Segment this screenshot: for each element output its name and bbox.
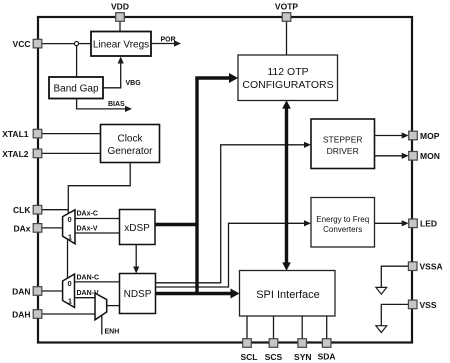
svg-text:SPI Interface: SPI Interface [256,289,320,301]
wire SPI to SCS [273,316,275,339]
svg-text:LED: LED [420,219,437,229]
svg-text:DAx: DAx [13,223,30,233]
svg-text:VDD: VDD [111,2,129,12]
svg-text:CLK: CLK [13,205,31,215]
svg-text:STEPPER: STEPPER [323,135,363,145]
block U2 Band Gap [49,77,103,99]
net DAx-C wire to xDSP [75,211,120,219]
pin CLK [13,205,42,215]
svg-text:0: 0 [68,215,72,224]
pin MOP [409,131,440,141]
svg-text:VCC: VCC [13,39,31,49]
svg-text:MON: MON [420,151,440,161]
pin VSS [408,300,436,310]
chip outline border [38,17,412,343]
svg-text:VSSA: VSSA [420,262,443,272]
svg-text:Linear Vregs: Linear Vregs [93,40,149,51]
pin SYN [294,339,311,362]
mux M3 ENH selector [95,293,107,320]
wire VCC to junction [41,43,74,45]
svg-text:SCS: SCS [265,352,283,362]
svg-text:Clock: Clock [117,134,143,145]
wire XTAL1 to Clock Generator [41,133,101,135]
pin XTAL1 [2,129,42,139]
wire Energy to Freq to LED [375,220,409,226]
wire VDD to Linear Vregs [119,20,121,32]
svg-text:MOP: MOP [420,131,440,141]
block U3 Clock Generator [101,125,160,163]
net BIAS output arrow [77,99,132,113]
wire Stepper Driver to MON [375,153,409,159]
wire junction to Linear Vregs [79,43,91,45]
svg-text:Band Gap: Band Gap [53,84,98,95]
svg-text:DAH: DAH [12,309,30,319]
wire SPI to SCL [246,316,248,339]
wire DAH to mux M3 [41,313,95,315]
wire mux select M1 to M2 [67,240,69,278]
svg-text:POR: POR [161,37,176,44]
svg-text:Energy to Freq: Energy to Freq [316,215,369,224]
mux M2 DAN selector [63,274,75,308]
pin VSSA [408,262,442,272]
svg-text:SCL: SCL [241,352,258,362]
svg-text:112 OTP: 112 OTP [267,66,308,78]
svg-text:ENH: ENH [105,329,120,336]
svg-text:0: 0 [68,279,72,288]
block U4 xDSP [120,210,156,245]
svg-text:VOTP: VOTP [275,2,298,12]
svg-text:xDSP: xDSP [124,223,150,234]
svg-text:VSS: VSS [420,300,437,310]
block U1 Linear Vregs [91,32,151,57]
pin VOTP [275,2,298,22]
pin VDD [111,2,129,22]
svg-text:CONFIGURATORS: CONFIGURATORS [242,79,333,91]
pin MON [409,151,440,161]
block U9 SPI Interface [240,271,336,317]
svg-text:1: 1 [68,296,72,305]
wire VSS to ground [381,304,408,325]
thick bus arrow into OTP [195,73,238,83]
svg-text:NDSP: NDSP [124,289,152,300]
block U6 112 OTP Configurators [238,55,338,101]
wire VOTP to OTP configurators [286,20,288,55]
svg-text:1: 1 [68,232,72,241]
svg-text:DAx-V: DAx-V [77,226,98,233]
wire Clock Generator output to mux select [68,163,130,216]
thick bus xDSP to OTP [155,223,197,226]
svg-text:DAN-C: DAN-C [77,274,100,281]
net DAx-V wire to xDSP [75,226,120,233]
block U8 Energy to Freq Converters [311,198,375,248]
ground symbol for VSSA [376,287,387,294]
svg-text:DAx-C: DAx-C [77,211,98,218]
net DAN-C wire to NDSP [75,274,120,282]
wire Stepper Driver to MOP [375,132,409,138]
pin DAH [12,309,42,319]
wire DAN to mux M2 [41,290,63,292]
wire VSSA to ground [381,266,408,287]
block U7 Stepper Driver [311,119,375,169]
svg-text:BIAS: BIAS [108,101,125,108]
pin SDA [318,339,336,362]
pin SCL [241,339,258,362]
ground symbol for VSS [376,326,387,333]
net ENH select stub [102,315,119,335]
svg-text:SDA: SDA [318,352,336,362]
pin DAx [13,223,41,233]
wire NDSP to Stepper Driver [156,142,312,283]
net VBG wire Band Gap to Linear Vregs [103,57,141,88]
wire NDSP to Energy to Freq [156,220,312,287]
svg-text:DRIVER: DRIVER [327,146,359,156]
wire DAx to mux M1 [41,227,63,229]
svg-text:XTAL2: XTAL2 [2,149,29,159]
thick bus NDSP to SPI Interface [156,289,240,299]
wire CLK to clock net [41,209,68,211]
block U5 NDSP [120,274,156,314]
svg-text:VBG: VBG [126,80,142,87]
wire junction to Band Gap [76,46,78,77]
pin LED [409,219,437,229]
wire SPI to SYN [301,316,303,339]
wire xDSP to NDSP arrow [133,245,139,274]
wire SPI to SDA [326,316,328,339]
svg-text:Converters: Converters [323,225,362,234]
svg-text:DAN: DAN [12,286,30,296]
svg-text:SYN: SYN [294,352,311,362]
pin VCC [13,39,42,49]
pin SCS [265,339,283,362]
wire mux M3 to NDSP [107,305,120,307]
pin XTAL2 [2,149,42,159]
net POR output arrow [151,37,181,47]
svg-text:Generator: Generator [107,146,153,157]
net DAN-V wire to mux M3 [75,290,99,298]
svg-text:XTAL1: XTAL1 [2,129,29,139]
pin DAN [12,286,42,296]
mux M1 DAx selector [63,210,75,244]
wire XTAL2 to Clock Generator [41,152,101,154]
thick bus vertical spine [195,78,198,294]
thick bus OTP to SPI bidirectional [282,100,291,270]
junction node on VCC net [74,42,78,46]
